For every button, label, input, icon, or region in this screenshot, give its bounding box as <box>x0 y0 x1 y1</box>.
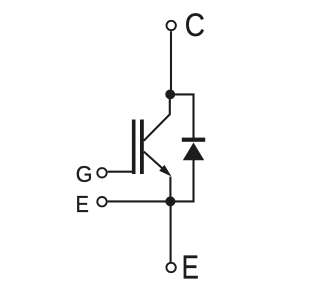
terminal E circle bottom <box>166 263 175 272</box>
wire gate <box>108 171 133 173</box>
terminal C circle <box>167 21 176 30</box>
node collector junction <box>165 90 175 100</box>
wire collector vertical <box>170 31 172 94</box>
label E left <box>76 191 89 218</box>
diode D1 anode triangle <box>183 143 204 161</box>
node emitter junction <box>165 196 175 206</box>
label E bottom <box>182 249 199 286</box>
svg-text:E: E <box>76 191 89 218</box>
terminal E circle left <box>97 197 106 206</box>
svg-text:C: C <box>185 8 205 43</box>
IGBT collector lead diagonal <box>144 94 170 140</box>
IGBT Q1 body bar <box>140 120 144 175</box>
svg-text:G: G <box>76 161 93 187</box>
wire E left <box>108 200 167 202</box>
IGBT emitter lead diagonal <box>144 152 168 174</box>
wire diode bottom to emitter node <box>170 159 193 201</box>
label C <box>185 8 205 43</box>
IGBT emitter arrow <box>159 165 171 177</box>
IGBT Q1 gate bar <box>132 120 136 175</box>
terminal G circle <box>97 168 106 177</box>
diode D1 cathode bar <box>182 138 205 142</box>
wire emitter down to bottom terminal <box>170 201 172 262</box>
wire junction to diode top <box>170 94 193 139</box>
label G <box>76 161 93 187</box>
svg-text:E: E <box>182 249 199 286</box>
wire emitter to node <box>169 177 171 202</box>
